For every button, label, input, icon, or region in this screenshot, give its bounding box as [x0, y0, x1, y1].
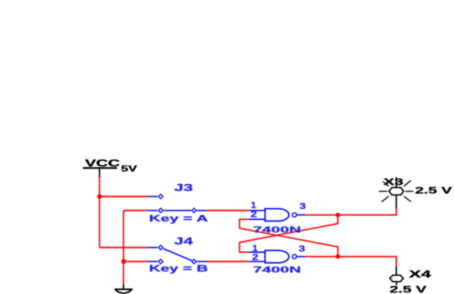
node junction U2 output	[336, 255, 340, 259]
VCC symbol	[83, 168, 117, 178]
svg-text:X3: X3	[384, 177, 404, 188]
node junction U1 output	[336, 213, 340, 217]
svg-text:J3: J3	[174, 183, 194, 194]
node junction ground to J4	[122, 260, 126, 264]
svg-text:1: 1	[251, 201, 257, 210]
wire VCC rail vertical	[99, 178, 101, 248]
svg-text:7400N: 7400N	[253, 264, 301, 274]
wire ground rail vertical	[123, 211, 125, 285]
lamp X3 (lit)	[379, 177, 414, 209]
svg-text:7400N: 7400N	[253, 224, 301, 234]
wire ground to J3 bottom throw	[124, 210, 149, 212]
wire U1 output to X3	[305, 209, 396, 215]
node junction VCC to J3	[98, 195, 102, 199]
wire ground to J4 bottom throw	[124, 261, 149, 263]
svg-text:Key = B: Key = B	[149, 263, 209, 273]
ground	[115, 284, 133, 293]
wire U2 output to X4	[305, 257, 396, 266]
switch J3	[148, 194, 207, 213]
wire J4 pole to U2 pin2	[207, 261, 249, 263]
wire VCC to J3 top throw	[100, 196, 149, 198]
svg-text:X4: X4	[409, 269, 432, 280]
svg-text:J4: J4	[174, 237, 194, 248]
svg-text:VCC: VCC	[85, 158, 121, 170]
svg-text:2: 2	[251, 210, 258, 219]
wire U1 output feedback to U2 pin1	[240, 215, 338, 252]
svg-text:Key = A: Key = A	[149, 213, 209, 223]
lamp X4 (off)	[390, 266, 404, 286]
svg-text:1: 1	[252, 244, 258, 253]
svg-text:3: 3	[299, 202, 306, 211]
NAND gate U1 7400N	[249, 209, 306, 221]
svg-text:2: 2	[252, 253, 259, 262]
wire J3 pole to U1 pin1	[207, 210, 249, 212]
switch J4	[148, 245, 207, 264]
wire VCC to J4 top throw	[100, 247, 149, 249]
svg-text:5V: 5V	[121, 165, 138, 174]
NAND gate U2 7400N	[249, 250, 306, 262]
svg-text:2.5 V: 2.5 V	[415, 186, 453, 197]
wire U2 output feedback to U1 pin2	[240, 219, 338, 256]
svg-text:3: 3	[299, 245, 306, 254]
svg-text:2.5 V: 2.5 V	[390, 285, 428, 294]
